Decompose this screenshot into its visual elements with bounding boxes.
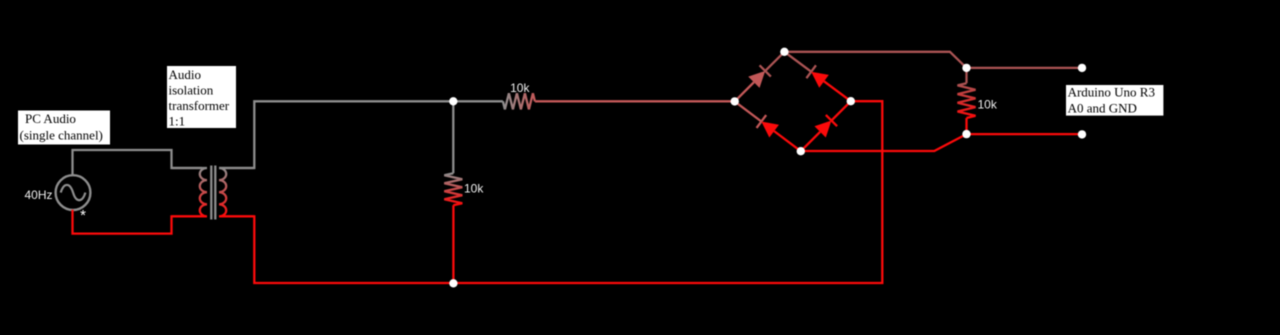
svg-text:10k: 10k (978, 97, 998, 111)
svg-text:Arduino Uno R3: Arduino Uno R3 (1068, 84, 1155, 99)
svg-text:10k: 10k (464, 182, 484, 196)
svg-text:transformer: transformer (169, 98, 230, 113)
svg-text:isolation: isolation (169, 82, 214, 97)
svg-text:*: * (80, 207, 86, 224)
svg-text:10k: 10k (510, 81, 530, 95)
svg-text:Audio: Audio (169, 67, 202, 82)
svg-text:A0 and GND: A0 and GND (1068, 101, 1137, 116)
svg-text:(single channel): (single channel) (20, 128, 103, 143)
svg-text:40Hz: 40Hz (24, 188, 52, 202)
svg-text:PC Audio: PC Audio (25, 111, 76, 126)
svg-text:1:1: 1:1 (169, 113, 186, 128)
